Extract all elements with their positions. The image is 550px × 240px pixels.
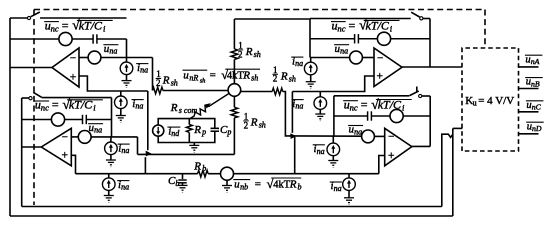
svg-text:nd: nd bbox=[171, 129, 180, 138]
wire: inverting input wire (top-right) bbox=[310, 57, 350, 59]
label: label 1/2 Rsh (right) bbox=[272, 65, 296, 84]
label: output label u_nD bbox=[526, 121, 544, 133]
svg-text:2: 2 bbox=[156, 78, 161, 88]
current source i_na non-inverting (bottom-left) bbox=[108, 174, 110, 178]
wire: non-inverting step down to bias rail (bottom-left) bbox=[71, 155, 75, 173]
svg-text:na: na bbox=[140, 66, 148, 75]
op-amp A1 (top-left, pointing left) bbox=[52, 48, 79, 87]
label: K_u = 4 V/V bbox=[465, 95, 514, 107]
tap arrowhead (right) bbox=[290, 133, 296, 139]
ground bbox=[104, 196, 114, 203]
wire: feedback left leg down to inverting input (top-right) bbox=[309, 19, 311, 58]
svg-text:+: + bbox=[388, 150, 395, 162]
resistor 1/2 Rsh (left) bbox=[152, 87, 163, 94]
label: u_nc formula (top-left) bbox=[44, 18, 113, 34]
ground bbox=[122, 81, 132, 88]
current source i_nd (in left edge of box) bbox=[153, 125, 164, 136]
gain block output stub A bbox=[519, 66, 539, 68]
Ku gain block dashed box bbox=[462, 48, 519, 151]
svg-text:R: R bbox=[193, 160, 201, 172]
output rail of A1 (lower rail 2) bbox=[10, 215, 453, 217]
svg-text:na: na bbox=[317, 147, 325, 156]
wire: u_nc / C_i feedback branch (top-left) bbox=[10, 38, 59, 40]
label: u_na label (top-right) bbox=[334, 43, 349, 56]
wire: drop from + network to tap arrow (left) bbox=[147, 91, 149, 150]
label: i_na label (top-left non-inverting) bbox=[132, 98, 144, 111]
svg-text:sh: sh bbox=[254, 50, 261, 59]
noise source u_na (top-right) bbox=[350, 51, 363, 64]
label: u_nRsh formula bbox=[183, 68, 261, 84]
noise source u_na (bottom-left) bbox=[78, 131, 91, 144]
capacitor C_i (top-left) bbox=[93, 34, 97, 43]
svg-text:4kT: 4kT bbox=[227, 71, 245, 82]
ground bbox=[178, 185, 188, 192]
output rail of A2 (lower rail 1) bbox=[22, 206, 442, 208]
ground bbox=[315, 114, 325, 121]
svg-text:na: na bbox=[109, 47, 117, 56]
variable resistor R_s com (diagonal) bbox=[190, 93, 229, 118]
resistor R_p bbox=[188, 119, 190, 125]
svg-text:R: R bbox=[242, 70, 250, 82]
svg-text:R: R bbox=[245, 46, 253, 58]
svg-text:−: − bbox=[388, 131, 394, 143]
svg-text:+: + bbox=[377, 71, 384, 83]
noise source u_nc (bottom-left) bbox=[51, 113, 64, 126]
ground of u_nb bbox=[226, 180, 228, 185]
svg-text:sh: sh bbox=[259, 121, 266, 130]
label: i_na label (top-left inverting) bbox=[136, 62, 148, 75]
noise source u_nc (top-left) bbox=[59, 32, 72, 45]
svg-text:nR: nR bbox=[189, 74, 198, 83]
current source i_na inverting input (top-left) bbox=[126, 58, 128, 63]
noise source u_nb bbox=[221, 167, 234, 180]
wire: corner from A1 inverting wire down to left Rsh bbox=[152, 58, 154, 91]
outer dashed box top edge bbox=[34, 9, 485, 11]
capacitor C_p (in right edge of box) bbox=[211, 128, 219, 131]
label: label 1/2 Rsh (left) bbox=[156, 69, 178, 88]
op-amp A3 (top-right, pointing right) bbox=[374, 48, 402, 87]
label: output label u_nC bbox=[526, 100, 544, 112]
wire: u_nc / C_i feedback branch (bottom-right) bbox=[334, 115, 368, 117]
wire: top rail from top Rsh to top-right feedback bbox=[234, 18, 310, 20]
wire: top-left feedback top rail with reset switch bbox=[10, 17, 27, 19]
label: u_na label (top-left) bbox=[103, 43, 118, 56]
svg-text:nc: nc bbox=[337, 23, 345, 33]
wire: right Rsh corner down to A4 inverting wire bbox=[283, 92, 293, 136]
wire: non-inverting step (top-left) bbox=[79, 76, 148, 91]
svg-text:+: + bbox=[62, 150, 69, 162]
wire: bottom-right switch to feedback right leg bbox=[422, 95, 430, 97]
label: u_na label (bottom-left) bbox=[88, 122, 103, 135]
svg-text:na: na bbox=[295, 102, 303, 111]
svg-text:sh: sh bbox=[289, 75, 296, 84]
outer dashed box right edge bbox=[484, 10, 486, 49]
gain block output stub C bbox=[519, 111, 539, 113]
wire: output of A3 into gain block bbox=[402, 66, 462, 68]
svg-text:nc: nc bbox=[51, 23, 59, 33]
ground bbox=[328, 161, 338, 168]
tap arrowhead (left) bbox=[146, 151, 152, 157]
wire: rail2 up to gain block input C bbox=[452, 128, 454, 216]
svg-text:−: − bbox=[70, 53, 76, 65]
svg-text:s com: s com bbox=[179, 106, 198, 115]
resistor 1/2 Rsh (bottom) bbox=[233, 96, 235, 107]
svg-text:u: u bbox=[183, 70, 189, 82]
noise source u_na (bottom-right) bbox=[362, 130, 375, 143]
label: label 1/2 Rsh (bottom) bbox=[243, 111, 266, 130]
svg-text:2: 2 bbox=[244, 120, 249, 130]
ground of detector box bbox=[193, 143, 195, 146]
label: i_na label (bottom-right inverting) bbox=[313, 143, 325, 156]
label: i_na label (bottom-left inverting) bbox=[118, 142, 130, 155]
label: u_nc formula (top-right) bbox=[331, 18, 400, 34]
label: i_na label (top-right inverting) bbox=[291, 55, 303, 68]
label: output label u_nB bbox=[525, 77, 543, 89]
svg-text:nb: nb bbox=[240, 182, 248, 191]
svg-text:=: = bbox=[349, 18, 356, 32]
svg-text:=: = bbox=[52, 98, 59, 112]
svg-text:nA: nA bbox=[531, 57, 540, 66]
svg-text:+: + bbox=[70, 72, 77, 84]
svg-text:=: = bbox=[210, 70, 216, 82]
svg-text:nc: nc bbox=[350, 102, 358, 112]
svg-text:−: − bbox=[377, 53, 383, 65]
outer dashed box left edge bbox=[33, 10, 35, 206]
wire: inverting input wire (top-left) bbox=[79, 57, 88, 59]
label: R_b bbox=[193, 160, 206, 173]
wire: output of A1 bbox=[10, 67, 52, 69]
label: u_nc formula (bottom-right) bbox=[343, 97, 412, 113]
ground bbox=[116, 116, 126, 123]
svg-text:na: na bbox=[135, 102, 143, 111]
wire: inverting input wire (bottom-right) bbox=[292, 135, 361, 137]
wire: bias rail up to non-inverting input of A4 bbox=[379, 156, 385, 174]
wire: rail1 up to gain block input D bbox=[442, 134, 453, 206]
wire: bottom-left feedback top rail (right part) bbox=[42, 97, 112, 99]
svg-text:=: = bbox=[62, 18, 69, 32]
label: u_nb formula bbox=[233, 177, 301, 192]
wire: stub from bias rail up (left) bbox=[144, 157, 146, 174]
wire: feedback right leg down to A4 output (bottom-right) bbox=[429, 96, 431, 146]
wire: corner from A2 inverting down to Rsh-bottom wire bbox=[137, 137, 139, 155]
svg-text:R: R bbox=[280, 71, 288, 83]
ground bbox=[306, 82, 316, 89]
resistor R_b bbox=[198, 170, 209, 177]
svg-text:sh: sh bbox=[251, 74, 258, 83]
label: output label u_nA bbox=[525, 54, 543, 66]
capacitor C_i (bottom-left) bbox=[83, 115, 87, 124]
detector model box bbox=[158, 119, 215, 143]
svg-text:p: p bbox=[226, 128, 231, 137]
wire: feedback right leg (top-right) bbox=[429, 19, 431, 68]
svg-text:R: R bbox=[162, 75, 170, 87]
wire: top-right feedback top rail bbox=[310, 18, 411, 20]
wire: u_nc / C_i feedback branch (bottom-left) bbox=[22, 119, 52, 121]
current source i_na non-inverting (top-left) bbox=[120, 91, 122, 96]
wire: feedback right leg down to inverting input (top-left) bbox=[126, 39, 128, 58]
svg-text:na: na bbox=[121, 183, 129, 192]
wire: output of A2 bbox=[22, 146, 42, 148]
label: C_b bbox=[168, 175, 179, 188]
wire: top-left amp output rail (x=10) bbox=[9, 18, 11, 216]
svg-text:p: p bbox=[201, 128, 206, 137]
ground bbox=[106, 160, 116, 167]
reset switch S4 (bottom-right) bbox=[410, 91, 419, 96]
wire: bottom-left feedback left leg / A2 output rail bbox=[21, 98, 23, 207]
op-amp A2 (bottom-left, pointing left) bbox=[41, 128, 71, 166]
noise source u_nc (top-right) bbox=[377, 32, 390, 45]
wire: inverting input wire (bottom-left) bbox=[71, 136, 78, 138]
svg-text:nB: nB bbox=[531, 79, 540, 88]
svg-text:na: na bbox=[340, 47, 348, 56]
label: i_na label (top-right non-inverting) bbox=[292, 98, 304, 111]
wire: output of A4 bbox=[412, 145, 430, 147]
current source i_na non-inverting (bottom-right) bbox=[348, 174, 350, 178]
svg-text:= 4 V/V: = 4 V/V bbox=[478, 95, 514, 107]
svg-text:b: b bbox=[175, 179, 179, 188]
label: i_na label (bottom-left non-inverting) bbox=[117, 179, 129, 192]
svg-text:na: na bbox=[94, 126, 102, 135]
svg-text:nD: nD bbox=[532, 124, 542, 133]
svg-text:2: 2 bbox=[273, 74, 278, 84]
current source i_na inverting input (bottom-left) bbox=[110, 137, 112, 142]
svg-text:sh: sh bbox=[200, 77, 206, 84]
svg-text:nc: nc bbox=[41, 103, 49, 113]
label: i_na label (bottom-right non-inverting) bbox=[330, 180, 342, 193]
svg-text:na: na bbox=[334, 184, 342, 193]
noise source u_nc (bottom-right) bbox=[390, 109, 403, 122]
svg-text:u: u bbox=[473, 98, 477, 107]
reset switch S2 (bottom-left) bbox=[29, 97, 32, 100]
label: u_nc formula (bottom-left) bbox=[34, 97, 103, 113]
svg-text:na: na bbox=[295, 59, 303, 68]
svg-text:=: = bbox=[361, 97, 368, 111]
current source i_na non-inverting (top-right) bbox=[319, 92, 321, 97]
capacitor C_i (top-right) bbox=[355, 34, 359, 43]
resistor 1/2 Rsh (top) bbox=[233, 19, 235, 49]
wire: non-inverting step (top-right) bbox=[292, 76, 374, 92]
op-amp A4 (bottom-right, pointing right) bbox=[385, 128, 412, 166]
svg-text:b: b bbox=[202, 164, 206, 173]
svg-text:nC: nC bbox=[532, 103, 542, 112]
wire: drop from + network of A3 bbox=[291, 92, 293, 133]
svg-text:sh: sh bbox=[171, 78, 178, 87]
current source i_na inverting input (top-right) bbox=[310, 58, 312, 63]
wire: feedback left leg down to inverting input (bottom-right) bbox=[333, 96, 335, 137]
ground bbox=[344, 198, 354, 205]
svg-text:−: − bbox=[62, 132, 68, 144]
gain block output stub D bbox=[519, 133, 539, 135]
node: central shunt node u_nRsh bbox=[228, 84, 241, 97]
label: label 1/2 Rsh (top) bbox=[238, 40, 261, 59]
svg-text:R: R bbox=[193, 124, 201, 136]
gain block output stub B bbox=[519, 88, 539, 90]
svg-text:R: R bbox=[289, 178, 297, 190]
label: R_s com bbox=[170, 102, 198, 115]
reset switch S3 (top-right) bbox=[411, 12, 419, 17]
current source i_na inverting input (bottom-right) bbox=[332, 136, 334, 143]
wire: stub from bias rail up (right) bbox=[294, 137, 296, 174]
label: u_na label (bottom-right) bbox=[348, 124, 363, 137]
svg-text:b: b bbox=[298, 182, 302, 191]
svg-text:4kT: 4kT bbox=[273, 179, 291, 190]
label: C_p bbox=[220, 124, 231, 137]
wire: bottom-right feedback top rail bbox=[334, 95, 409, 97]
svg-text:na: na bbox=[121, 146, 129, 155]
label: i_nd bbox=[167, 125, 180, 138]
label: R_p bbox=[193, 124, 206, 137]
capacitor C_b bbox=[182, 174, 184, 179]
noise source u_na (top-left) bbox=[88, 51, 101, 64]
wire: feedback right leg down to inverting input (bottom-left) bbox=[111, 120, 113, 137]
svg-text:2: 2 bbox=[238, 49, 243, 59]
svg-text:=: = bbox=[255, 178, 261, 190]
wire: top-right switch to feedback right leg bbox=[423, 18, 430, 20]
bias rail (left) bbox=[76, 173, 198, 175]
resistor 1/2 Rsh (right) bbox=[241, 91, 273, 93]
svg-text:na: na bbox=[354, 128, 362, 137]
reset switch S1 (top-left) bbox=[27, 16, 30, 19]
wire: u_nc / C_i feedback branch (top-right) bbox=[310, 38, 355, 40]
svg-text:R: R bbox=[170, 102, 178, 114]
capacitor C_i (bottom-right) bbox=[368, 111, 372, 120]
svg-text:R: R bbox=[250, 117, 258, 129]
wire: bottom-left feedback top rail bbox=[22, 97, 29, 99]
